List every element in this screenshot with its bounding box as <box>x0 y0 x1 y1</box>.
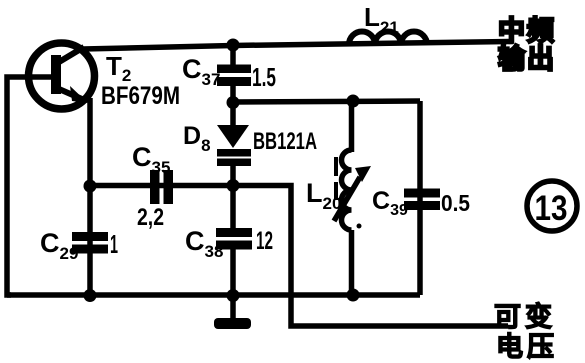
wire tank top rail <box>233 101 420 102</box>
svg-text:BF679M: BF679M <box>101 82 180 110</box>
node B below C37 <box>227 96 240 109</box>
wire tank right rail <box>417 101 423 295</box>
wire D8 cathode down <box>230 164 236 230</box>
node emitter junction <box>84 180 97 193</box>
transistor T2 base bar <box>51 55 61 94</box>
wire bottom ground rail <box>7 292 420 298</box>
svg-text:电压: 电压 <box>496 332 558 362</box>
wire C37 top lead <box>230 45 236 66</box>
node bottom emitter <box>84 289 97 302</box>
svg-text:1: 1 <box>110 229 118 259</box>
capacitor C38 <box>216 228 252 237</box>
node bottom tank <box>347 289 360 302</box>
node A top junction <box>227 39 240 52</box>
wire emitter vertical <box>87 98 93 295</box>
capacitor C35 <box>150 170 160 204</box>
inductor L20 core dashes <box>334 157 338 200</box>
wire C37 to D8 <box>230 84 236 126</box>
node tank top <box>347 95 360 108</box>
inductor L21 <box>349 32 427 45</box>
figure number 13 circle <box>527 181 577 231</box>
svg-text:12: 12 <box>256 227 273 255</box>
ground <box>214 318 251 329</box>
node C varactor bias node <box>227 179 240 192</box>
transistor Q T2 circle <box>29 43 95 109</box>
svg-text:13: 13 <box>535 189 568 228</box>
transistor T2 collector stroke <box>59 47 84 62</box>
svg-text:可变: 可变 <box>494 301 556 332</box>
svg-text:0.5: 0.5 <box>441 190 470 216</box>
wire bias line to variable voltage <box>233 186 508 327</box>
svg-text:BB121A: BB121A <box>253 128 317 155</box>
capacitor C37 <box>217 65 251 74</box>
capacitor C39 <box>404 189 440 198</box>
svg-text:中频: 中频 <box>498 16 556 46</box>
svg-text:1.5: 1.5 <box>252 62 276 92</box>
wire left rail from base <box>7 77 56 295</box>
transistor T2 emitter stroke with arrow <box>59 89 82 99</box>
inductor L20 variable <box>349 101 355 152</box>
svg-text:2,2: 2,2 <box>137 204 164 231</box>
wire C38 bottom lead <box>230 248 236 320</box>
node bottom C38 <box>227 289 240 302</box>
svg-text:输出: 输出 <box>498 43 556 74</box>
inductor L20 arrow <box>334 177 360 221</box>
wire C35 link <box>90 183 233 189</box>
wire top rail collector to output <box>83 42 513 50</box>
capacitor C29 <box>72 232 108 241</box>
diode D8 varactor <box>217 125 249 148</box>
